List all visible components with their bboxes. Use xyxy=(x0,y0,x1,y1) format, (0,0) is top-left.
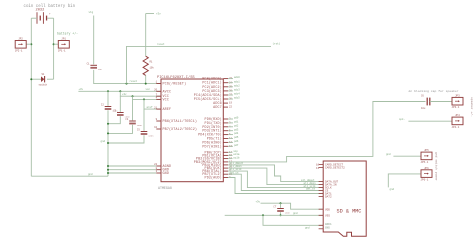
svg-text:20: 20 xyxy=(154,89,158,92)
pin VDD sd xyxy=(319,208,331,211)
pin AGND left xyxy=(154,163,171,169)
wire pad1 stub xyxy=(26,43,31,45)
svg-text:+3v: +3v xyxy=(79,88,84,91)
svg-text:JP6-1: JP6-1 xyxy=(421,179,429,182)
wire V4 upper xyxy=(143,109,145,131)
pin ADC7 right xyxy=(213,106,232,110)
wire gnd agnd branch xyxy=(108,165,156,167)
wire C5 bottom L to trunk xyxy=(108,135,144,143)
wire V2 upper xyxy=(119,96,121,112)
svg-text:switch: switch xyxy=(39,84,48,87)
pin PB3(MOSI/OC2) right xyxy=(194,160,233,165)
pin PC6(/RESET) left xyxy=(156,81,187,87)
wire speaker pwm run xyxy=(228,102,426,162)
wire stub net adc0 xyxy=(228,78,233,80)
svg-text:PD7(AIN1): PD7(AIN1) xyxy=(202,144,221,149)
wire battery right lead xyxy=(47,17,53,19)
svg-text:adc4: adc4 xyxy=(234,93,240,96)
pin PD0(RXD) right xyxy=(205,117,231,122)
svg-text:PIC16LF628XT-I/SS: PIC16LF628XT-I/SS xyxy=(157,75,195,80)
svg-text:pd0: pd0 xyxy=(234,117,239,120)
pin PC2(ADC2) right xyxy=(202,85,232,90)
node C3 gnd junction xyxy=(107,123,109,125)
pin PB0(ICP) right xyxy=(205,150,233,155)
wire stub net pd3 xyxy=(228,130,233,132)
pin DATA_OUT sd xyxy=(319,181,339,184)
wire R1 top lead xyxy=(145,14,147,57)
svg-text:22: 22 xyxy=(229,106,233,109)
node gnd1 branch junction xyxy=(262,214,264,216)
svg-text:adc0: adc0 xyxy=(234,76,240,79)
wire stub net pd7 xyxy=(228,145,233,147)
svg-text:gnd: gnd xyxy=(293,212,298,215)
capacitor C1 xyxy=(87,62,103,71)
svg-text:AREF: AREF xyxy=(163,108,172,112)
capacitor C6 dc blocking xyxy=(421,94,430,110)
pin PD2(INT0) right xyxy=(202,125,231,130)
pin PB5(SCK) right xyxy=(205,166,233,171)
label stub net row1 xyxy=(228,151,233,153)
svg-text:gnd: gnd xyxy=(101,140,106,143)
svg-text:11: 11 xyxy=(316,167,320,170)
resistor R1 xyxy=(143,56,154,75)
svg-text:CARD_DETECT2: CARD_DETECT2 xyxy=(325,167,345,170)
svg-text:oc1b: oc1b xyxy=(233,155,240,159)
pin PD4(XCK/T0) right xyxy=(198,133,231,138)
wire L4 aref feed xyxy=(144,99,161,109)
pin GND sd xyxy=(319,226,331,229)
wire V1 lower to gnd trunk xyxy=(107,110,109,176)
svg-text:reset: reset xyxy=(130,80,138,83)
svg-text:vcc: vcc xyxy=(146,88,151,91)
svg-text:2032: 2032 xyxy=(36,9,45,13)
pin CARD_DETECT2 sd xyxy=(319,167,346,170)
svg-text:adc2: adc2 xyxy=(234,84,240,87)
svg-text:PC6(/RESET): PC6(/RESET) xyxy=(163,82,187,87)
wire battery minus vertical rail xyxy=(30,18,32,176)
svg-text:reset: reset xyxy=(157,43,165,46)
wire prog rst run xyxy=(127,46,272,83)
pin PD5(T1) right xyxy=(207,137,233,142)
wire switch row horizontal xyxy=(31,78,41,80)
svg-text:JP2-1: JP2-1 xyxy=(15,49,23,52)
pin GND left xyxy=(156,167,169,173)
svg-text:ADC7: ADC7 xyxy=(213,106,222,110)
svg-text:VSS: VSS xyxy=(325,214,330,217)
wire stub net pd0 xyxy=(228,118,233,120)
ic U1 ATMEGA8 body xyxy=(161,79,223,182)
node L1-V2 junction xyxy=(119,90,121,92)
svg-text:adc5: adc5 xyxy=(234,97,240,100)
svg-text:dat_cs: dat_cs xyxy=(306,188,316,191)
svg-text:adc3: adc3 xyxy=(234,89,240,92)
svg-text:pd4: pd4 xyxy=(234,132,239,135)
svg-text:ATMEGA8: ATMEGA8 xyxy=(158,186,172,190)
node battery minus junction xyxy=(30,43,32,45)
capacitor C2 xyxy=(101,104,118,113)
pin AREF left xyxy=(154,106,171,112)
wire battery plus vertical xyxy=(53,18,55,79)
wire stub net pd6 xyxy=(228,141,233,143)
node L2-V3 junction xyxy=(132,95,134,97)
pin DAT2 sd xyxy=(319,196,332,199)
svg-text:aref: aref xyxy=(147,106,154,109)
connector SW1 pad xyxy=(421,149,433,164)
svg-text:+3v: +3v xyxy=(256,200,261,203)
wire gnd branch 2 xyxy=(108,169,156,171)
pin AVCC left xyxy=(154,89,171,95)
svg-text:JP5: JP5 xyxy=(424,149,429,152)
connector X1 SD&MMC body xyxy=(323,161,366,236)
wire sclk staircase xyxy=(228,171,323,188)
svg-text:JP3: JP3 xyxy=(455,95,460,98)
pin PB2(SS/OC1B) right xyxy=(196,157,233,162)
label stub net row2 xyxy=(228,154,233,156)
wire C1 top lead xyxy=(93,16,95,65)
capacitor C7 sd decoupling xyxy=(273,206,290,215)
svg-text:+3v: +3v xyxy=(122,93,127,96)
capacitor C4 xyxy=(125,118,142,127)
wire L3 vcc feed xyxy=(133,96,162,99)
connector JP2 battery plus pad xyxy=(58,38,70,53)
wire stub net adc1 xyxy=(228,82,233,84)
svg-text:battery +/-: battery +/- xyxy=(57,32,78,36)
label sd card-detect pin numbers xyxy=(316,164,320,170)
pin ADC6 right xyxy=(213,102,232,106)
connector SW2 pad xyxy=(421,167,433,182)
svg-text:22: 22 xyxy=(154,163,158,166)
pin PC4(ADC4/SDA) right xyxy=(194,93,233,98)
wire stub net pd5 xyxy=(228,138,233,140)
svg-text:JP6: JP6 xyxy=(424,167,429,170)
wire battery left lead xyxy=(31,17,37,19)
wire stub net pd4 xyxy=(228,134,233,136)
svg-text:AVCC: AVCC xyxy=(163,90,172,94)
wire stub net adc2 xyxy=(228,86,233,88)
pin PD2(AUD) right xyxy=(205,176,231,181)
pin DAT1 sd xyxy=(319,193,332,196)
node switch-left junction xyxy=(30,78,32,80)
node battery plus junction xyxy=(53,43,55,45)
svg-text:100n: 100n xyxy=(137,124,143,127)
svg-text:JP1-1: JP1-1 xyxy=(58,49,66,52)
svg-text:JP5-1: JP5-1 xyxy=(421,161,429,164)
wire cap to speaker pad xyxy=(430,101,452,103)
wire V3 upper xyxy=(132,99,134,120)
svg-text:PB7(XTAL2/TOSC2): PB7(XTAL2/TOSC2) xyxy=(163,127,198,132)
wire pad2 stub xyxy=(54,43,59,45)
svg-text:pd5: pd5 xyxy=(234,136,239,139)
wire speaker minus xyxy=(408,120,452,122)
pin GND1 sd xyxy=(319,223,332,226)
capacitor C3 xyxy=(113,110,130,119)
svg-text:dat_cs: dat_cs xyxy=(230,171,240,174)
connector SPK+ pad xyxy=(452,95,464,110)
wire stub net adc5 xyxy=(228,98,233,100)
pin PD1(TXD) right xyxy=(205,121,231,126)
diode S1 series element xyxy=(39,73,48,87)
svg-text:gnd: gnd xyxy=(386,153,391,156)
pin VCC left xyxy=(156,93,169,99)
pin PB7(XTAL2/TOSC2) left xyxy=(154,126,197,132)
wire dat1 staircase xyxy=(228,178,323,194)
wire C3 bottom L to trunk xyxy=(108,116,120,123)
pin PB6(XTAL) right xyxy=(202,169,231,174)
wire sd vss gnd line xyxy=(225,214,324,216)
pin CS sd xyxy=(319,190,329,193)
svg-text:JP1: JP1 xyxy=(61,38,66,41)
svg-text:JP4-1: JP4-1 xyxy=(452,126,460,129)
svg-text:coin cell battery bin: coin cell battery bin xyxy=(24,4,76,9)
svg-text:VDD: VDD xyxy=(325,208,330,211)
wire gnd branch 3 xyxy=(108,172,156,174)
wire cs staircase xyxy=(228,174,323,190)
svg-text:10: 10 xyxy=(154,126,158,129)
wire sd vdd feed xyxy=(261,203,324,209)
pin PD3(INT1) right xyxy=(202,129,231,134)
wire L1 vcc feed xyxy=(78,90,161,92)
pin CARD_DETECT sd xyxy=(319,164,344,167)
svg-text:SD & MMC: SD & MMC xyxy=(337,208,362,214)
wire sd gnd1 branch xyxy=(263,215,323,225)
svg-text:100n: 100n xyxy=(148,134,154,137)
svg-text:pd3: pd3 xyxy=(234,128,239,131)
svg-text:adc1: adc1 xyxy=(234,80,240,83)
svg-text:21: 21 xyxy=(154,106,158,109)
node L3-V4 junction xyxy=(143,98,145,100)
wire L2 vcc feed xyxy=(120,91,161,96)
wire C7 top stub xyxy=(280,203,282,208)
pin DATA_IN sd xyxy=(319,184,337,187)
node L1-V1 junction xyxy=(107,90,109,92)
node C7 gnd junction xyxy=(280,214,282,216)
svg-text:JP3-1: JP3-1 xyxy=(452,106,460,109)
pin SCLK sd xyxy=(319,187,332,190)
label +3v stub top xyxy=(146,13,154,15)
svg-text:DAT2: DAT2 xyxy=(325,196,332,199)
pin PB1(OC1A) right xyxy=(202,153,232,158)
wire stub net adc4 xyxy=(228,94,233,96)
svg-text:(rst): (rst) xyxy=(273,41,281,45)
svg-text:vtg: vtg xyxy=(89,11,94,14)
svg-text:gnd: gnd xyxy=(88,173,93,176)
svg-text:PD2(AUD): PD2(AUD) xyxy=(205,176,222,181)
pin PC0(ADC0) right xyxy=(202,77,232,82)
svg-text:10n: 10n xyxy=(98,68,103,71)
wire stub net pd1 xyxy=(228,122,233,124)
pin PB6(XTAL1/TOSC1) left xyxy=(156,118,197,124)
svg-text:JP4: JP4 xyxy=(455,114,460,117)
svg-text:dc blocking cap for speaker: dc blocking cap for speaker xyxy=(409,89,459,93)
svg-text:spk-: spk- xyxy=(399,118,406,121)
svg-text:19: 19 xyxy=(229,102,233,105)
connector SPK- pad xyxy=(452,114,464,129)
pin GND left xyxy=(156,170,169,176)
svg-text:pd2: pd2 xyxy=(234,124,239,127)
node R1-reset junction xyxy=(145,83,147,85)
svg-text:GND: GND xyxy=(325,226,330,229)
wire gnd bottom rail xyxy=(31,175,108,177)
pin PD6(AIN0) right xyxy=(202,140,232,145)
pin PB4(MISO) right xyxy=(202,163,232,168)
wire data_in staircase xyxy=(228,168,323,185)
wire C4 bottom L to trunk xyxy=(108,125,133,134)
svg-text:pd1: pd1 xyxy=(234,121,239,124)
svg-text:speaker +/-: speaker +/- xyxy=(470,97,474,117)
svg-text:10k: 10k xyxy=(150,67,155,70)
pin PD7(AIN1) right xyxy=(202,144,232,149)
svg-text:pd7: pd7 xyxy=(234,144,239,147)
pin PC1(ADC1) right xyxy=(202,81,232,86)
wire V1 upper xyxy=(107,91,109,106)
node reset-prog junction xyxy=(126,83,128,85)
wire stub net pd2 xyxy=(228,126,233,128)
pin PC3(ADC3) right xyxy=(202,89,232,94)
pin VCC left xyxy=(156,97,169,103)
node vdd cap junction xyxy=(280,202,282,204)
svg-text:pd6: pd6 xyxy=(234,140,239,143)
svg-text:JP2: JP2 xyxy=(18,38,23,41)
svg-text:GND: GND xyxy=(163,172,169,176)
battery BAT1 value 2032 xyxy=(36,9,52,24)
pin PC5(ADC5/SCL) right xyxy=(194,97,233,102)
label stub net row3 xyxy=(228,158,233,160)
node C5 gnd junction xyxy=(107,142,109,144)
svg-text:VCC: VCC xyxy=(163,98,169,102)
svg-text:PB6(XTAL1/TOSC1): PB6(XTAL1/TOSC1) xyxy=(163,119,198,124)
wire data_out staircase xyxy=(228,165,323,182)
svg-text:gnd: gnd xyxy=(305,226,310,229)
node C4 gnd junction xyxy=(107,132,109,134)
svg-text:gnd: gnd xyxy=(390,188,395,191)
svg-text:gnd switch power: gnd switch power xyxy=(435,152,439,181)
capacitor C5 xyxy=(137,129,154,138)
wire C1 bottom to reset line xyxy=(94,70,161,84)
svg-text:100n: 100n xyxy=(285,211,291,214)
wire C7 bottom stub xyxy=(280,212,282,215)
wire switch pad2 L xyxy=(388,174,421,188)
svg-text:+3v: +3v xyxy=(156,13,161,16)
wire R1 bottom lead xyxy=(145,75,147,83)
pin PB7(XTL2) right xyxy=(202,172,232,177)
svg-text:10u: 10u xyxy=(421,107,426,110)
wire stub net adc3 xyxy=(228,90,233,92)
wire switch pad1 xyxy=(393,155,421,157)
pin VSS sd xyxy=(319,214,331,217)
connector JP1 battery minus pad xyxy=(15,38,27,53)
